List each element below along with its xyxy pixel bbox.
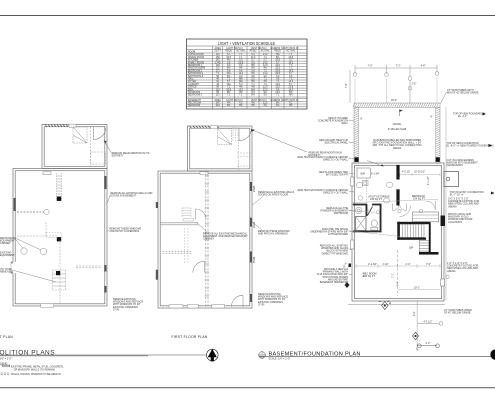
svg-text:4%: 4% [264, 68, 267, 70]
svg-text:18'-4": 18'-4" [391, 99, 397, 102]
svg-text:5'-6": 5'-6" [414, 311, 416, 316]
svg-text:130 SQ FT: 130 SQ FT [370, 198, 382, 201]
svg-text:MIN OF 42" BELOW GRADE: MIN OF 42" BELOW GRADE [447, 92, 479, 95]
svg-text:LAUNDRY: LAUNDRY [188, 83, 200, 86]
left wall window bumps [351, 177, 355, 186]
svg-text:12.0: 12.0 [239, 73, 244, 75]
svg-text:1740: 1740 [215, 62, 221, 64]
svg-text:BATHROOM 1: BATHROOM 1 [188, 72, 204, 75]
left wall dark door segment [14, 198, 16, 211]
thick black wall horizontal 2 [419, 252, 439, 255]
note: remove these windows [110, 228, 142, 234]
note: remove rear addition [112, 152, 150, 158]
window well square [444, 172, 459, 187]
svg-text:12.0: 12.0 [263, 87, 268, 89]
dashed partition 2 [17, 235, 58, 237]
svg-text:24x36: 24x36 [254, 185, 256, 192]
right arrows [483, 113, 495, 195]
svg-text:REQD: REQD [225, 50, 232, 52]
north arrow [207, 349, 219, 361]
svg-text:BEDROOM 1: BEDROOM 1 [188, 65, 203, 67]
svg-text:I-BEAM: I-BEAM [447, 270, 455, 273]
svg-text:168: 168 [216, 57, 221, 59]
svg-text:7'-0": 7'-0" [368, 65, 373, 68]
thick black wall vertical [396, 165, 399, 180]
svg-text:DIRECT FIT WINDOWS: DIRECT FIT WINDOWS [322, 252, 349, 255]
toilet [371, 220, 377, 227]
rec room label [363, 273, 376, 279]
label box on top wall [43, 172, 51, 175]
left plan door arc top right [94, 127, 107, 140]
svg-text:CABINET: CABINET [0, 242, 11, 245]
svg-text:4%: 4% [264, 81, 267, 83]
svg-text:14.2: 14.2 [289, 70, 294, 72]
double doors bedroom [392, 204, 394, 211]
svg-text:20.8: 20.8 [239, 62, 244, 64]
svg-text:BASEMENT PLAN: BASEMENT PLAN [0, 335, 13, 339]
small dim below wall [378, 300, 390, 302]
left plan interior: chimney dashed [57, 173, 62, 201]
small elevation marker above title [416, 344, 439, 351]
svg-text:10'-10 1/2": 10'-10 1/2" [414, 172, 425, 174]
window box on mid main top wall [200, 172, 208, 175]
svg-text:SCALE: 1/4" = 1'-0": SCALE: 1/4" = 1'-0" [0, 357, 12, 360]
svg-text:OF 42" BELOW GRADE: OF 42" BELOW GRADE [444, 312, 471, 315]
svg-text:4%: 4% [227, 60, 230, 62]
svg-text:7'-6": 7'-6" [345, 83, 348, 88]
svg-text:10'-1": 10'-1" [414, 286, 420, 289]
svg-text:5'-0": 5'-0" [398, 281, 400, 286]
svg-text:CRAWL: CRAWL [393, 123, 402, 126]
svg-text:SCALE: 1/4" = 1'-0": SCALE: 1/4" = 1'-0" [269, 358, 291, 361]
schedule rows text [188, 53, 299, 107]
diamond symbol 2 [413, 332, 419, 340]
svg-text:N/A: N/A [239, 78, 243, 81]
svg-text:8%: 8% [276, 57, 279, 59]
svg-text:8%: 8% [251, 73, 254, 75]
svg-text:142: 142 [216, 60, 221, 62]
svg-text:DOORS ON FIRST FLOOR: DOORS ON FIRST FLOOR [258, 194, 288, 197]
dashed partition right [76, 265, 102, 267]
svg-text:AREA: AREA [215, 99, 222, 102]
svg-text:20.8: 20.8 [226, 57, 231, 59]
small black diamond left [345, 282, 350, 288]
bedroom label [412, 195, 425, 201]
svg-text:8%: 8% [251, 65, 254, 67]
svg-text:SQ FT: SQ FT [214, 50, 221, 52]
svg-text:I-BEAM: I-BEAM [448, 205, 456, 208]
svg-text:W/H: W/H [361, 174, 366, 176]
svg-text:(NECESSARY): (NECESSARY) [447, 164, 464, 167]
mid stair [218, 129, 232, 145]
legend symbol 1 [3, 365, 10, 367]
svg-text:4%: 4% [276, 105, 279, 107]
svg-text:4%: 4% [239, 68, 242, 70]
svg-text:7'-6": 7'-6" [426, 263, 431, 266]
svg-text:12.0: 12.0 [275, 84, 280, 86]
long title line left [0, 354, 207, 356]
svg-text:LOCATIONS: LOCATIONS [448, 221, 462, 224]
main house [158, 171, 252, 308]
svg-text:OR MASONRY WALLS (TO REMAIN): OR MASONRY WALLS (TO REMAIN) [14, 369, 55, 372]
bottom wall window [41, 304, 54, 307]
svg-text:2'-6": 2'-6" [412, 83, 417, 86]
svg-text:4'-2": 4'-2" [426, 342, 431, 345]
svg-text:DIRECTLY OUT WALL: DIRECTLY OUT WALL [323, 159, 348, 162]
black post mid [57, 237, 61, 241]
svg-text:8%: 8% [251, 105, 254, 107]
svg-text:OFFICE: OFFICE [188, 87, 197, 89]
svg-text:LIGHT + VENTILATION SCHEDULE: LIGHT + VENTILATION SCHEDULE [218, 41, 275, 46]
svg-text:216: 216 [216, 54, 221, 56]
svg-text:4%: 4% [264, 105, 267, 107]
svg-text:HALL: HALL [188, 78, 195, 81]
svg-text:GYPSUM BOARD: GYPSUM BOARD [328, 233, 348, 236]
svg-text:4%: 4% [251, 76, 254, 78]
svg-text:ACTUAL: ACTUAL [236, 49, 246, 52]
left note leaders [349, 120, 355, 275]
mid top wall hatch [190, 126, 220, 128]
interior dim row [368, 263, 431, 266]
left plan dashed demo wall [90, 127, 92, 166]
svg-text:8%: 8% [251, 95, 254, 97]
svg-text:2'-4": 2'-4" [406, 263, 411, 266]
mid bottom wall windows [169, 305, 183, 308]
svg-text:14.2: 14.2 [289, 62, 294, 64]
left plan stair [73, 127, 87, 143]
svg-text:AREAS: AREAS [393, 147, 402, 150]
crawl space hatched walls [354, 103, 440, 163]
svg-text:LIVING ROOM: LIVING ROOM [188, 54, 204, 56]
left vertical dim 7'-6" [349, 70, 351, 103]
left wall window gap [12, 262, 18, 273]
mid right notes [258, 191, 295, 306]
svg-text:20.8: 20.8 [275, 73, 280, 75]
note: remove walls basement [110, 192, 152, 198]
chimney post black [57, 197, 61, 201]
svg-text:8%: 8% [227, 92, 230, 94]
svg-text:N/A: N/A [239, 80, 243, 83]
upper rear addition walls [42, 125, 107, 169]
svg-text:BATHROOM 2: BATHROOM 2 [188, 75, 204, 78]
svg-text:139: 139 [216, 65, 221, 67]
svg-text:12.0: 12.0 [263, 89, 268, 91]
svg-text:BATHROOM: BATHROOM [334, 212, 348, 215]
svg-text:4'-2 1/2": 4'-2 1/2" [402, 172, 411, 174]
svg-text:INTO EJECTOR PIT: INTO EJECTOR PIT [326, 174, 349, 177]
thick black wall left of stairs [397, 222, 399, 240]
svg-text:WALL: WALL [341, 122, 348, 125]
svg-text:1'-10": 1'-10" [382, 263, 388, 266]
mid leader rear addition note [251, 130, 307, 153]
svg-text:4'-1 3/4": 4'-1 3/4" [368, 263, 377, 266]
mid left wall windows [156, 202, 158, 208]
svg-text:20.8: 20.8 [275, 68, 280, 70]
svg-text:AND PATCH N OPENINGS: AND PATCH N OPENINGS [110, 230, 140, 233]
window box on top wall [69, 124, 76, 127]
svg-text:14.2: 14.2 [263, 54, 268, 56]
right-side notes column [441, 89, 494, 315]
svg-text:EL -4'-2": EL -4'-2" [458, 115, 467, 118]
svg-text:14.2: 14.2 [263, 62, 268, 64]
shower box with X [356, 217, 367, 231]
svg-text:8": 8" [361, 119, 363, 121]
right edge north arrow (cut) [490, 349, 495, 359]
svg-text:3" MILLED SLAB: 3" MILLED SLAB [388, 128, 407, 131]
left plan note right [113, 298, 143, 311]
svg-text:14.2: 14.2 [263, 73, 268, 75]
schedule header text [188, 47, 299, 54]
svg-text:8%: 8% [239, 105, 242, 107]
svg-text:REMOVED: REMOVED [0, 271, 13, 274]
svg-text:EQUIPMENT: EQUIPMENT [0, 254, 15, 257]
svg-text:N/A: N/A [227, 83, 231, 86]
svg-text:20.8: 20.8 [289, 57, 294, 59]
svg-text:4%: 4% [227, 76, 230, 78]
svg-text:8%: 8% [227, 105, 230, 107]
svg-text:LIGHT (SF/S.F.): LIGHT (SF/S.F.) [226, 100, 243, 102]
fixtures circles [21, 248, 27, 254]
svg-text:8%: 8% [251, 81, 254, 83]
bath door leaf [368, 207, 373, 216]
svg-text:14.2: 14.2 [289, 89, 294, 91]
mid bottom right door arc [242, 295, 244, 307]
svg-text:171: 171 [216, 70, 221, 72]
svg-text:ENTIRETY: ENTIRETY [112, 155, 124, 158]
svg-text:VENT (SF/S.F.): VENT (SF/S.F.) [251, 100, 267, 102]
window size labels [254, 185, 256, 263]
svg-text:20.8: 20.8 [275, 60, 280, 62]
right wall window segments [104, 265, 106, 272]
survey flag [399, 110, 401, 117]
window box on mid top wall [211, 126, 218, 129]
svg-text:AND PATCH N OPENINGS: AND PATCH N OPENINGS [258, 233, 288, 236]
light + ventilation schedule table [0, 0, 1, 1]
exist foundation line [445, 107, 447, 300]
svg-text:8%: 8% [289, 105, 292, 107]
svg-text:18R: 18R [409, 248, 414, 250]
svg-text:4%: 4% [239, 87, 242, 89]
svg-text:35x54: 35x54 [254, 256, 256, 263]
svg-text:(TYP): (TYP) [258, 303, 265, 306]
svg-text:BASEMENT PERIMETER: BASEMENT PERIMETER [320, 281, 349, 284]
svg-text:7'-2": 7'-2" [396, 65, 401, 68]
closet [413, 212, 439, 222]
thick black wall below stairs [397, 238, 426, 240]
drawing ref bubble [259, 352, 266, 359]
svg-text:REQD: REQD [274, 50, 281, 52]
main house walls [13, 169, 107, 307]
svg-text:DOORS N BASEMENT: DOORS N BASEMENT [110, 195, 136, 198]
water heater box [357, 168, 370, 178]
svg-text:EL -7'-10" +/-: EL -7'-10" +/- [450, 194, 464, 197]
svg-text:WALLS, DOORS, WNDOWS TO BE DEM: WALLS, DOORS, WNDOWS TO BE DEMO'D [11, 373, 61, 376]
vertical dim 2'-6" [409, 80, 411, 103]
sheet top border line [0, 15, 495, 17]
left plan top wall hatch [45, 125, 71, 127]
svg-text:12.0: 12.0 [275, 87, 280, 89]
svg-text:ACTUAL: ACTUAL [261, 49, 271, 52]
svg-text:FOYER: FOYER [188, 81, 196, 83]
egress window black right wall [441, 216, 446, 227]
stairs upper flight risers [400, 224, 424, 237]
svg-text:6'-1 1/2": 6'-1 1/2" [428, 176, 430, 185]
svg-text:N/A: N/A [276, 53, 280, 56]
svg-text:8%: 8% [227, 68, 230, 70]
svg-text:EGRESS (VENT) (SF/S.F.): EGRESS (VENT) (SF/S.F.) [271, 100, 299, 102]
svg-text:20.8: 20.8 [226, 89, 231, 91]
sonotube circles [353, 71, 439, 80]
sink [356, 207, 362, 213]
leader to note [104, 141, 111, 153]
basement interior dims [364, 172, 431, 287]
svg-text:12.0: 12.0 [239, 89, 244, 91]
center dashed line [59, 240, 61, 303]
svg-text:KITCHEN: KITCHEN [188, 60, 199, 62]
right wall window segment upper [104, 176, 106, 189]
svg-text:14.2: 14.2 [289, 81, 294, 83]
svg-text:8": 8" [431, 117, 433, 119]
mid door arc top right [239, 128, 252, 141]
svg-text:4%: 4% [239, 92, 242, 94]
mid right wall windows [250, 182, 252, 191]
svg-text:ACTUAL: ACTUAL [286, 49, 296, 52]
mid note chimney removal [203, 233, 248, 241]
svg-text:N/A: N/A [251, 88, 255, 91]
svg-text:DIRECTLY OUT WALL: DIRECTLY OUT WALL [323, 192, 348, 195]
right wall window small [441, 279, 445, 286]
svg-text:20.8: 20.8 [275, 70, 280, 72]
svg-text:ELECTRICAL PANEL: ELECTRICAL PANEL [325, 142, 349, 145]
svg-text:REQD: REQD [250, 50, 257, 52]
bottom dim line [348, 304, 445, 306]
crawl wall corner posts [355, 157, 359, 162]
left-side notes column (for basement) [297, 117, 348, 284]
bathroom walls (dark) [353, 204, 382, 233]
left plan partition dashed with knob [17, 210, 44, 212]
dashed centerline 1 [397, 250, 399, 296]
svg-text:8%: 8% [289, 92, 292, 94]
left plan left notes [0, 237, 17, 274]
svg-text:12.0: 12.0 [275, 92, 280, 94]
svg-text:BASEMENT: BASEMENT [188, 99, 201, 102]
svg-text:8%: 8% [251, 68, 254, 70]
stairs lower flight treads [419, 240, 429, 252]
svg-text:6'-1 3/4": 6'-1 3/4" [371, 173, 380, 175]
upper rear addition [188, 126, 253, 171]
svg-text:4'-8": 4'-8" [421, 65, 426, 68]
left plan closet dashed [91, 152, 106, 164]
svg-text:7'-1": 7'-1" [393, 273, 395, 278]
svg-text:SUNROOM: SUNROOM [188, 92, 200, 94]
fireplace hatched [53, 270, 66, 290]
svg-text:12.0: 12.0 [251, 57, 256, 59]
top dimension line [355, 65, 437, 71]
keyed circle bath [376, 211, 379, 214]
svg-text:DEN: DEN [188, 89, 193, 91]
thick black wall right of stairs [429, 223, 431, 253]
svg-text:121: 121 [216, 95, 221, 97]
svg-text:20.8: 20.8 [289, 87, 294, 89]
svg-text:240 SQ FT: 240 SQ FT [363, 275, 375, 278]
utility room label [368, 196, 390, 202]
keyed note circles [356, 182, 449, 279]
svg-text:12.0: 12.0 [263, 65, 268, 67]
svg-text:N/A: N/A [289, 94, 293, 97]
svg-text:(TYP): (TYP) [113, 308, 120, 311]
mid center partition [160, 171, 209, 308]
svg-text:EL -8'-0" +/- NEW POURED FOUND: EL -8'-0" +/- NEW POURED FOUNDATION [447, 145, 494, 148]
svg-text:FIRST FLOOR PLAN: FIRST FLOOR PLAN [172, 335, 208, 339]
legend symbol 2 [1, 373, 10, 375]
mid closet shelves [182, 208, 194, 263]
svg-text:MASTER BDRM: MASTER BDRM [188, 67, 205, 70]
svg-text:BEDROOM 2: BEDROOM 2 [188, 70, 203, 72]
svg-text:4%: 4% [251, 87, 254, 89]
diamond symbol 1 [382, 302, 388, 310]
svg-text:DEMOLITION PLANS: DEMOLITION PLANS [0, 350, 55, 357]
thick black wall above stairs [397, 222, 430, 224]
svg-text:FAMILY ROOM: FAMILY ROOM [188, 61, 204, 64]
sheet bottom border line [0, 387, 495, 389]
centerline 2 with dim [416, 300, 418, 351]
svg-text:DINING ROOM: DINING ROOM [188, 57, 204, 59]
long leaders crossing plan [349, 200, 439, 237]
basement outline [352, 163, 444, 301]
svg-text:14.2: 14.2 [275, 65, 280, 67]
svg-text:BEDROOM: BEDROOM [188, 105, 200, 107]
svg-text:CHIMNEY: CHIMNEY [203, 238, 215, 241]
svg-text:BEDROOM 3: BEDROOM 3 [188, 95, 203, 97]
svg-text:240: 240 [216, 105, 221, 107]
left plan leaders [12, 238, 56, 283]
svg-text:N/A: N/A [227, 72, 231, 75]
mid door arcs interior [195, 209, 197, 220]
svg-text:ROOM: ROOM [188, 51, 195, 53]
